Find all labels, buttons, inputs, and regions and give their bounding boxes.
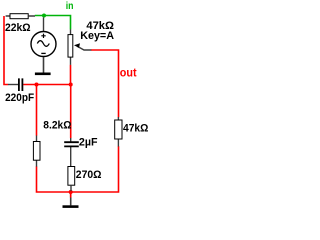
capacitor 2µF (vertical, middle column) <box>64 136 98 166</box>
svg-text:Key=A: Key=A <box>80 30 114 42</box>
AC voltage source (circle, +, sine, -) <box>31 17 56 56</box>
svg-text:47kΩ: 47kΩ <box>123 123 149 135</box>
wire red: left edge column from 22k down to 220pF row <box>4 16 8 85</box>
resistor 270Ω (vertical, middle column) <box>68 167 102 192</box>
wire red: middle column below 270 to bottom rail <box>70 191 72 192</box>
potentiometer 47kΩ Key=A (vertical, with wiper arrow) <box>68 20 114 65</box>
wire red: left column below 8.2k, corner and bottom rail to ground node <box>37 166 71 192</box>
wire red: right column below 47k, corner and bottom rail to ground node <box>71 146 119 192</box>
svg-text:22kΩ: 22kΩ <box>5 22 31 34</box>
svg-text:2µF: 2µF <box>79 136 98 148</box>
node: red junction dot at bottom ground rail <box>69 190 73 194</box>
svg-text:out: out <box>120 66 137 80</box>
wire red: left column x=36.5 from cap row down to 8.2k <box>36 85 38 136</box>
wire red: 220pF right lead row to middle junction <box>23 84 70 86</box>
node: green junction dot (in net, AC source tap) <box>42 14 46 18</box>
resistor 47kΩ (vertical, right column) <box>115 117 149 147</box>
svg-text:8.2kΩ: 8.2kΩ <box>43 119 71 131</box>
node: red junction dot at pot bottom / 2uF column <box>69 83 73 87</box>
net label "in" (green) <box>66 1 74 12</box>
wire red: middle column from junction down to 2uF <box>70 85 72 139</box>
svg-text:220pF: 220pF <box>5 92 34 104</box>
ground (under AC source) <box>35 57 51 75</box>
svg-text:270Ω: 270Ω <box>76 169 102 181</box>
svg-text:in: in <box>66 1 74 12</box>
resistor 8.2kΩ (vertical, left column) <box>33 119 71 166</box>
wire green: net "in" from 22k to pot top <box>35 16 71 30</box>
wire red: pot bottom lead down to junction <box>70 65 72 85</box>
wire red: wiper out wire and right column down to 47k <box>91 50 119 117</box>
ground (bottom, under junction) <box>63 193 79 208</box>
resistor 22kΩ (horizontal, top left) <box>5 14 35 34</box>
node: red junction dot at 220pF / 8.2k <box>35 83 39 87</box>
net label "out" (red) <box>120 66 137 80</box>
capacitor 220pF (horizontal, left) <box>5 78 34 103</box>
